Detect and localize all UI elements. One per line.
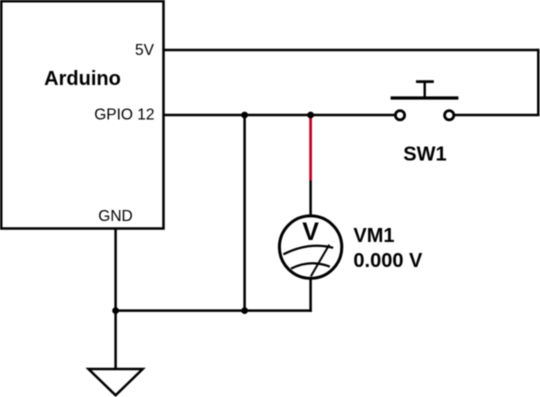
svg-text:V: V (302, 218, 319, 246)
voltmeter VM1 (279, 216, 341, 278)
svg-text:5V: 5V (135, 42, 155, 59)
wire switch right to rail (455, 114, 540, 117)
svg-text:0.000 V: 0.000 V (353, 250, 423, 272)
wire ground stem (114, 311, 117, 369)
wire voltmeter top (309, 181, 312, 217)
SW1 left terminal (395, 111, 404, 120)
junction dot bottom-GND (112, 307, 119, 314)
SW1 right terminal (445, 111, 454, 120)
wire middle vertical (243, 115, 246, 311)
svg-text:GPIO 12: GPIO 12 (94, 107, 154, 124)
wire bottom horizontal (116, 309, 312, 312)
wire GND pin vertical (114, 229, 117, 311)
junction dot bottom-mid (241, 307, 248, 314)
SW1 top bar (416, 80, 434, 83)
VM1 body circle (279, 216, 341, 278)
VM1 needle (311, 245, 329, 277)
wire 5V horizontal (163, 49, 538, 52)
SW1 bar (391, 96, 459, 99)
junction dot GPIO-probe (307, 112, 314, 119)
Arduino box U1 (1, 1, 163, 228)
ground symbol (89, 369, 143, 395)
wire red probe segment (309, 115, 312, 181)
svg-text:GND: GND (98, 208, 132, 225)
wire right vertical (537, 49, 540, 115)
wire GPIO 12 horizontal (163, 114, 395, 117)
wire voltmeter bottom (309, 278, 312, 312)
svg-text:VM1: VM1 (353, 225, 394, 247)
VM1 upper scale arc (283, 246, 333, 255)
svg-text:SW1: SW1 (403, 144, 446, 166)
pushbutton SW1 (391, 82, 459, 120)
junction dot GPIO-mid (241, 112, 248, 119)
SW1 stem (424, 82, 426, 98)
VM1 lower scale arc (291, 263, 330, 268)
svg-text:Arduino: Arduino (44, 68, 121, 90)
